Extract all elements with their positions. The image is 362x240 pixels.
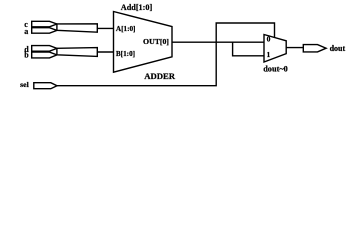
wire branch to mux input 1 [233, 42, 264, 56]
svg-text:a: a [24, 27, 28, 36]
input port b [32, 52, 57, 58]
svg-text:Add[1:0]: Add[1:0] [121, 3, 153, 12]
svg-text:dout~0: dout~0 [263, 65, 288, 74]
svg-text:A[1:0]: A[1:0] [116, 25, 136, 33]
svg-text:OUT[0]: OUT[0] [143, 37, 169, 46]
mux dout~0 block [264, 35, 286, 63]
output port dout [303, 45, 326, 52]
input port sel [34, 83, 57, 89]
svg-text:ADDER: ADDER [144, 71, 176, 81]
wire bus to A[1:0] [97, 27, 113, 29]
svg-text:1: 1 [267, 50, 271, 59]
input port c [32, 21, 57, 27]
input port a [32, 28, 57, 34]
wire bus to B[1:0] [97, 51, 113, 53]
wire sel to mux select [57, 23, 275, 86]
adder U1 block [114, 12, 173, 73]
wire adder OUT to mux input 0 [172, 41, 264, 43]
svg-text:B[1:0]: B[1:0] [116, 50, 135, 58]
input port d [32, 46, 57, 52]
svg-text:0: 0 [267, 35, 271, 44]
svg-text:sel: sel [20, 80, 29, 89]
bus join d,b [57, 48, 97, 57]
svg-text:b: b [24, 51, 29, 60]
wire mux out to dout port [286, 47, 303, 49]
bus join c,a [57, 24, 97, 32]
svg-text:dout: dout [330, 44, 346, 53]
